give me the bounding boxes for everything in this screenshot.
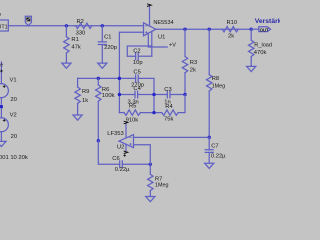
junction V1 V2 <box>0 105 3 108</box>
svg-text:1k: 1k <box>82 98 88 104</box>
resistor R8 <box>207 29 226 137</box>
voltage source V2 <box>0 113 17 142</box>
svg-text:e: e <box>0 12 2 18</box>
svg-text:R6: R6 <box>102 87 109 93</box>
svg-text:R5: R5 <box>129 104 136 110</box>
resistor R_load <box>249 29 273 66</box>
spice directive <box>0 155 28 161</box>
wire U1 comp pin <box>151 31 153 56</box>
svg-text:e: e <box>0 62 3 68</box>
svg-text:Verstärker: Verstärker <box>255 18 280 25</box>
svg-text:20: 20 <box>10 97 16 103</box>
power flag V- below U2 <box>123 144 127 157</box>
svg-text:V1: V1 <box>10 78 17 84</box>
svg-text:100k: 100k <box>102 93 115 99</box>
junction R3 top <box>183 28 186 31</box>
junction C7 top <box>208 136 211 139</box>
svg-text:20: 20 <box>11 134 17 140</box>
svg-text:R10: R10 <box>227 20 238 26</box>
junction rail crossing <box>118 77 121 80</box>
junction C6 R7 <box>149 163 152 166</box>
wire R5 R4 line <box>119 95 185 113</box>
resistor R3 <box>182 29 197 94</box>
svg-text:1Meg: 1Meg <box>212 83 226 89</box>
svg-text:C4: C4 <box>133 86 141 92</box>
svg-text:C7: C7 <box>211 143 218 149</box>
svg-text:330: 330 <box>76 31 86 37</box>
power flag V+ above U1 <box>147 4 151 26</box>
svg-text:C3: C3 <box>164 87 171 93</box>
wire U1 inverting input <box>119 31 143 33</box>
wire output net <box>156 28 251 30</box>
junction C4 C3 mid <box>152 93 155 96</box>
ground below R9 <box>73 115 82 120</box>
junction R6 top <box>97 77 100 80</box>
wire U2 noninv input <box>134 136 210 138</box>
svg-text:NE5534: NE5534 <box>153 20 173 26</box>
resistor R9 <box>75 78 90 115</box>
port OUT <box>251 27 270 33</box>
input box T1 <box>0 12 8 31</box>
svg-text:220p: 220p <box>104 45 117 51</box>
svg-text:C5: C5 <box>133 69 140 75</box>
resistor R7 <box>148 164 169 196</box>
svg-text:R3: R3 <box>190 60 197 66</box>
svg-text:C2: C2 <box>133 48 140 54</box>
wire feedback vertical <box>118 32 120 112</box>
svg-text:R7: R7 <box>155 176 162 182</box>
svg-text:75k: 75k <box>164 117 173 123</box>
svg-text:0.22µ: 0.22µ <box>115 167 130 173</box>
title Verstaerker <box>255 18 289 25</box>
voltage source V1 <box>0 62 17 117</box>
svg-text:2k: 2k <box>228 33 234 39</box>
junction R1 top <box>65 24 68 27</box>
wire U2 inv input <box>134 145 151 165</box>
ground below R_load <box>247 66 256 71</box>
svg-text:R4: R4 <box>165 104 173 110</box>
svg-text:LF353: LF353 <box>107 131 123 137</box>
resistor R4 <box>162 104 178 123</box>
wire input net <box>8 25 143 27</box>
ground below V2 <box>0 141 6 146</box>
capacitor C2 <box>127 46 152 66</box>
op-amp U2 LF353 <box>107 131 133 151</box>
svg-text:47k: 47k <box>71 44 80 50</box>
resistor R10 <box>222 20 238 39</box>
junction C3 right <box>183 93 186 96</box>
net flag e above V1 <box>0 62 3 68</box>
svg-text:2k: 2k <box>190 67 196 73</box>
junction C4 left <box>118 93 121 96</box>
capacitor C7 <box>205 137 226 163</box>
svg-text:R1: R1 <box>71 37 78 43</box>
ground below C1 <box>98 63 107 68</box>
capacitor C5 <box>131 69 144 88</box>
junction R8 top <box>208 28 211 31</box>
svg-text:C6: C6 <box>112 156 119 162</box>
svg-text:10p: 10p <box>133 60 143 66</box>
ground below R7 <box>146 197 155 202</box>
capacitor C6 <box>112 156 150 173</box>
capacitor C4 <box>128 86 142 106</box>
capacitor C1 <box>98 26 117 63</box>
svg-text:0.22µ: 0.22µ <box>211 153 226 159</box>
wire inverting rail <box>78 78 154 112</box>
svg-text:R9: R9 <box>82 89 89 95</box>
svg-text:R_load: R_load <box>254 42 272 48</box>
svg-text:0001 10 20k: 0001 10 20k <box>0 155 28 161</box>
wire rail C4 C3 <box>119 94 185 96</box>
junction OUT node <box>250 28 253 31</box>
net label +V <box>169 43 176 49</box>
svg-text:+V: +V <box>169 43 176 49</box>
ground below R1 <box>62 63 71 68</box>
svg-text:R2: R2 <box>77 19 84 25</box>
junction C1 top <box>101 24 104 27</box>
resistor R6 <box>96 78 115 140</box>
capacitor C3 <box>164 87 171 105</box>
svg-text:470k: 470k <box>254 50 267 56</box>
junction R4 left <box>152 111 155 114</box>
svg-text:1Meg: 1Meg <box>155 183 169 189</box>
svg-text:U1: U1 <box>158 35 165 41</box>
svg-text:U2: U2 <box>117 144 124 150</box>
wire U2 output to C6 <box>98 141 119 165</box>
net flag 2 <box>25 16 31 26</box>
svg-text:R8: R8 <box>212 76 219 82</box>
resistor R1 <box>64 26 81 63</box>
svg-text:V2: V2 <box>10 113 17 119</box>
ground below C7 <box>205 163 214 168</box>
resistor R5 <box>124 104 140 124</box>
svg-text:UT1: UT1 <box>0 25 8 31</box>
power flag V+ above U2 <box>124 121 128 138</box>
wire U1 V- pin to +V <box>148 33 167 47</box>
resistor R2 <box>76 19 92 36</box>
op-amp U1 NE5534 <box>144 20 174 41</box>
junction U2 output <box>97 139 100 142</box>
svg-text:OUT: OUT <box>260 27 269 32</box>
svg-text:C1: C1 <box>104 35 111 41</box>
